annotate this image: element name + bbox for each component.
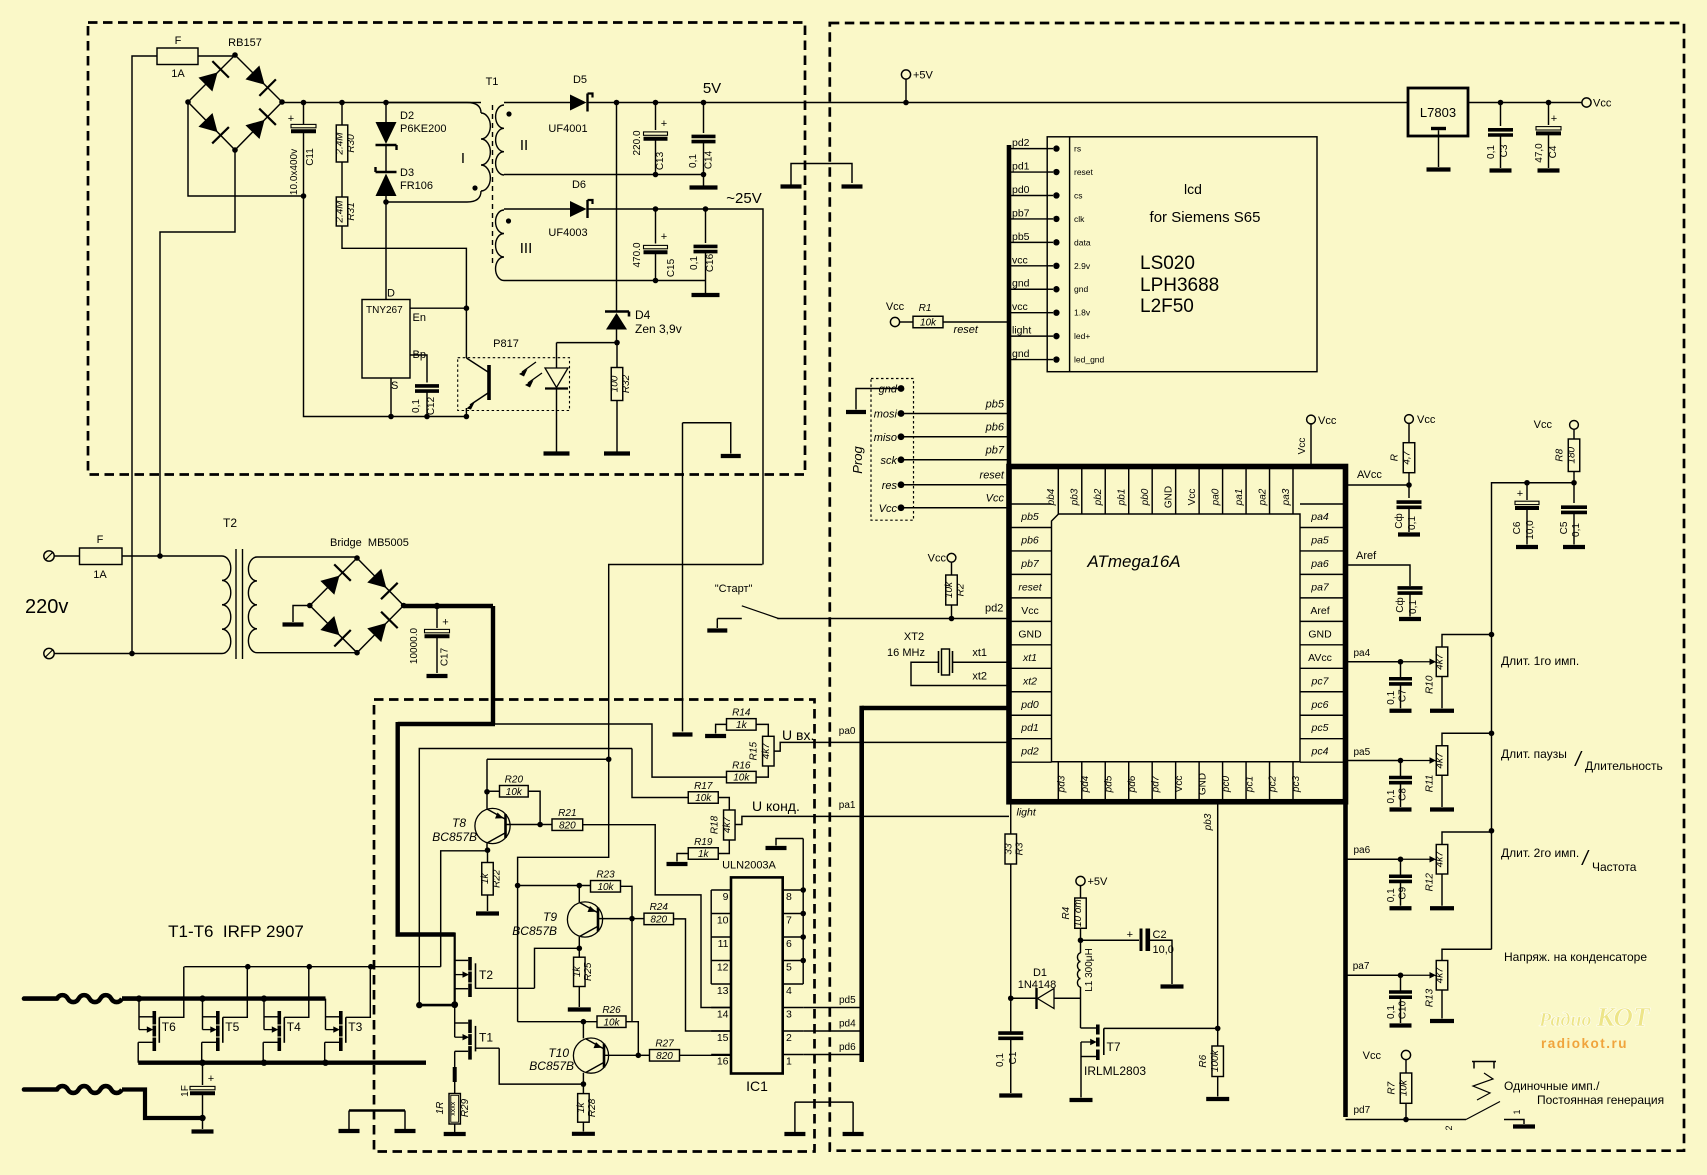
svg-text:10 om: 10 om — [1073, 899, 1084, 927]
svg-text:pd7: pd7 — [1150, 775, 1161, 793]
svg-text:0,1: 0,1 — [1386, 888, 1397, 902]
source bus — [138, 1060, 426, 1064]
svg-text:Напряж. на конденсаторе: Напряж. на конденсаторе — [1504, 950, 1647, 964]
driver dashed box — [374, 700, 815, 1152]
svg-text:Vcc: Vcc — [1021, 605, 1039, 617]
transistor T1 IRFP2907 — [455, 1022, 469, 1024]
svg-text:+: + — [1517, 488, 1523, 500]
svg-text:pa1: pa1 — [839, 800, 856, 811]
svg-text:+5V: +5V — [1088, 876, 1109, 888]
svg-text:R: R — [1389, 454, 1400, 461]
svg-text:0,1: 0,1 — [1571, 523, 1582, 537]
svg-text:10000.0: 10000.0 — [409, 627, 420, 664]
lcd pin cs — [1009, 194, 1047, 196]
svg-text:R28: R28 — [587, 1098, 598, 1117]
svg-text:Vcc: Vcc — [886, 301, 905, 313]
capacitor C12 0,1 — [415, 384, 439, 388]
IC TNY267 — [362, 300, 410, 379]
svg-text:reset: reset — [1074, 167, 1094, 177]
resistor R16 10k — [727, 771, 757, 783]
svg-text:T2: T2 — [479, 968, 493, 982]
svg-text:Aref: Aref — [1356, 550, 1377, 562]
svg-text:+: + — [208, 1073, 214, 1085]
svg-text:C1: C1 — [1008, 1051, 1019, 1064]
svg-text:En: En — [413, 312, 426, 324]
wire T1 source to R29 — [454, 1051, 456, 1067]
svg-text:pc0: pc0 — [1221, 776, 1232, 794]
svg-text:pd3: pd3 — [1057, 775, 1068, 793]
svg-text:pa7: pa7 — [1353, 961, 1370, 972]
svg-text:~25V: ~25V — [726, 190, 761, 207]
+5V terminal top — [901, 70, 910, 79]
svg-text:10.0x400v: 10.0x400v — [289, 149, 300, 195]
svg-text:16: 16 — [717, 1056, 729, 1068]
wire Ukond divider tap — [419, 749, 632, 1006]
svg-text:pa6: pa6 — [1354, 845, 1371, 856]
ground under C16 — [692, 293, 720, 297]
svg-text:820: 820 — [656, 1051, 673, 1062]
svg-text:pd7: pd7 — [1354, 1105, 1371, 1116]
transistor T3 IRFP2907 — [325, 999, 327, 1030]
svg-text:1k: 1k — [698, 849, 710, 860]
wire En — [410, 307, 466, 309]
svg-text:P6KE200: P6KE200 — [400, 123, 446, 135]
svg-text:D: D — [387, 288, 395, 300]
diode D3 FR106 — [376, 171, 397, 173]
wires pd5 pd4 pd6 — [803, 1007, 859, 1009]
svg-text:Vcc: Vcc — [879, 503, 898, 515]
MB5005 diode SE — [367, 623, 386, 642]
fuse F 1A (top) — [157, 48, 198, 65]
node D4/R32/LED — [614, 340, 620, 346]
svg-text:8: 8 — [786, 891, 792, 903]
MB5005 diode NE — [367, 569, 386, 588]
svg-text:0,1: 0,1 — [1408, 600, 1419, 614]
svg-text:2.4M: 2.4M — [335, 132, 346, 156]
svg-text:16 MHz: 16 MHz — [887, 647, 925, 659]
svg-text:R27: R27 — [655, 1039, 674, 1050]
svg-text:+: + — [442, 617, 448, 629]
5V rail — [588, 102, 1409, 104]
svg-text:1k: 1k — [736, 720, 748, 731]
svg-text:pb2: pb2 — [1093, 488, 1104, 506]
svg-text:Длит. 2го имп.: Длит. 2го имп. — [1501, 846, 1579, 860]
svg-text:33: 33 — [1003, 843, 1014, 855]
resistor R20 10k — [487, 790, 500, 792]
svg-text:pc5: pc5 — [1311, 722, 1329, 734]
RB157 diode SW — [198, 113, 217, 132]
resistor R31 2.4M — [341, 162, 343, 197]
svg-text:+: + — [661, 231, 667, 243]
Prog gnd wire — [856, 389, 901, 410]
svg-text:xt1: xt1 — [1022, 652, 1037, 664]
resistor R14 1k — [727, 719, 757, 731]
mode switch — [1466, 1102, 1500, 1120]
svg-text:Длит. 1го имп.: Длит. 1го имп. — [1501, 654, 1579, 668]
svg-text:1k: 1k — [480, 872, 491, 884]
T1 winding II — [496, 105, 504, 175]
resistor R24 820 — [629, 916, 635, 922]
svg-text:C13: C13 — [655, 151, 666, 170]
T2 secondary wires — [257, 556, 357, 558]
svg-text:pd4: pd4 — [1080, 775, 1091, 793]
resistor R6 100k — [1212, 1046, 1224, 1077]
svg-text:R22: R22 — [491, 869, 502, 888]
svg-text:Vcc: Vcc — [1593, 98, 1612, 110]
RB157 diode NW — [198, 72, 217, 91]
svg-text:TNY267: TNY267 — [366, 305, 403, 316]
svg-text:reset: reset — [980, 470, 1005, 482]
transistor T6 IRFP2907 — [138, 999, 140, 1030]
ground pair bottom (box2/3) — [795, 1101, 853, 1103]
svg-text:pc2: pc2 — [1268, 776, 1279, 794]
svg-text:Длит. паузы: Длит. паузы — [1501, 747, 1567, 761]
svg-text:R24: R24 — [650, 902, 669, 913]
resistor R1 10k / reset — [890, 317, 899, 326]
svg-text:xt2: xt2 — [972, 671, 987, 683]
capacitor C1 0,1 — [998, 1031, 1023, 1035]
thick bus to ULN side — [859, 706, 864, 1062]
svg-text:C4: C4 — [1548, 145, 1559, 158]
svg-text:Zen 3,9v: Zen 3,9v — [635, 322, 682, 336]
III bottom rail — [504, 280, 706, 282]
capacitor C11 10.0x400v — [303, 103, 305, 125]
svg-text:100k: 100k — [1210, 1049, 1221, 1072]
svg-text:U вх.: U вх. — [782, 727, 814, 743]
svg-text:ATmega16A: ATmega16A — [1086, 552, 1180, 571]
svg-text:pc6: pc6 — [1311, 699, 1329, 711]
T1 core — [492, 105, 494, 266]
svg-text:ULN2003A: ULN2003A — [722, 860, 776, 872]
fuse F 1A (bottom) — [80, 548, 123, 565]
svg-text:R1: R1 — [919, 303, 932, 314]
svg-text:R4: R4 — [1061, 906, 1072, 919]
svg-text:vcc: vcc — [1012, 254, 1028, 266]
svg-text:pa1: pa1 — [1234, 489, 1245, 507]
capacitor Cf (AVcc) — [1408, 485, 1410, 498]
svg-text:1: 1 — [786, 1056, 792, 1068]
svg-text:BC857B: BC857B — [529, 1059, 574, 1073]
thin bus tap for U vx divider — [495, 724, 727, 777]
svg-text:pb6: pb6 — [985, 422, 1005, 434]
transistor T2 IRFP2907 — [455, 959, 469, 961]
svg-text:clk: clk — [1074, 214, 1085, 224]
drain bus — [138, 996, 326, 1000]
svg-text:pd1: pd1 — [1012, 161, 1030, 173]
svg-text:0,1: 0,1 — [1407, 516, 1418, 530]
capacitor C9 0,1 — [1400, 859, 1402, 875]
potentiometer R11 4k7 — [1346, 760, 1401, 762]
svg-text:Vcc: Vcc — [986, 493, 1005, 505]
resistor R23 10k — [591, 881, 621, 893]
svg-text:4k7: 4k7 — [761, 743, 772, 760]
svg-text:3: 3 — [786, 1009, 792, 1021]
wire T1 gate to T10 — [499, 1048, 582, 1084]
svg-text:12: 12 — [717, 962, 729, 974]
svg-text:820: 820 — [559, 820, 576, 831]
svg-text:470.0: 470.0 — [632, 242, 643, 267]
stage T9 — [515, 883, 521, 889]
resistor R27 820 — [638, 1054, 649, 1056]
svg-text:pb0: pb0 — [1140, 488, 1151, 506]
svg-text:III: III — [520, 240, 533, 257]
svg-text:9: 9 — [723, 891, 729, 903]
svg-text:pa6: pa6 — [1310, 558, 1329, 570]
svg-text:pd2: pd2 — [985, 603, 1003, 615]
svg-text:pa7: pa7 — [1310, 581, 1330, 593]
ground pair top (box2 entry) — [781, 184, 802, 188]
Vcc output — [1468, 102, 1582, 104]
svg-text:Cф: Cф — [1394, 597, 1406, 612]
potentiometer R12 4k7 — [1346, 858, 1401, 860]
power supply dashed box — [88, 23, 805, 475]
RB157 diode NE — [245, 65, 264, 84]
svg-text:Vcc: Vcc — [1534, 419, 1553, 431]
svg-text:pb7: pb7 — [1020, 558, 1040, 570]
P817 phototransistor — [465, 308, 467, 358]
svg-text:4k7: 4k7 — [722, 817, 733, 834]
resistor R7 10k — [1401, 1050, 1410, 1059]
svg-text:R14: R14 — [732, 708, 751, 719]
thick DC bus from bridge — [404, 604, 493, 608]
svg-text:C15: C15 — [666, 258, 677, 277]
wire bridge bottom loop — [160, 150, 235, 556]
diode D2 P6KE200 — [385, 103, 387, 123]
svg-text:IC1: IC1 — [746, 1078, 768, 1094]
svg-text:14: 14 — [717, 1009, 729, 1021]
svg-text:pa5: pa5 — [1310, 534, 1329, 546]
ground under R32 — [604, 451, 630, 455]
resistor R22 1k — [487, 850, 489, 862]
resistor R30 2.4M — [341, 103, 343, 126]
gate bus — [184, 966, 440, 968]
svg-text:pa4: pa4 — [1310, 511, 1329, 523]
thick bus below chip right — [1343, 801, 1348, 1117]
transistor T5 IRFP2907 — [202, 999, 204, 1030]
svg-text:R32: R32 — [621, 374, 632, 393]
resistor R25 1k — [578, 948, 580, 957]
capacitor C17 10000.0 — [436, 606, 438, 628]
svg-text:1A: 1A — [93, 569, 107, 581]
svg-text:D4: D4 — [635, 308, 651, 322]
svg-text:1k: 1k — [572, 966, 583, 978]
svg-text:reset: reset — [954, 324, 979, 336]
svg-text:pb7: pb7 — [1012, 207, 1030, 219]
svg-text:gnd: gnd — [879, 384, 898, 396]
svg-text:D6: D6 — [572, 179, 586, 191]
svg-text:"Старт": "Старт" — [715, 583, 753, 595]
svg-text:Bridge MB5005: Bridge MB5005 — [330, 537, 409, 549]
inductor L1 300uH — [1080, 940, 1082, 953]
svg-text:gnd: gnd — [1074, 284, 1088, 294]
svg-text:pd0: pd0 — [1012, 184, 1030, 196]
P817 LED — [556, 343, 558, 368]
chip body — [1052, 514, 1301, 762]
resistor R17 10k — [632, 749, 688, 798]
pa7 module R13/C10 — [1346, 974, 1401, 976]
svg-text:pa0: pa0 — [839, 726, 856, 737]
capacitor C8 0,1 — [1400, 761, 1402, 777]
capacitor C15 470.0 — [655, 209, 657, 244]
svg-text:R29: R29 — [460, 1098, 471, 1117]
terminal 220v bottom — [44, 648, 54, 658]
resistor R2 10k — [947, 553, 956, 562]
svg-text:FR106: FR106 — [400, 180, 433, 192]
svg-text:data: data — [1074, 237, 1091, 247]
svg-text:5: 5 — [786, 962, 792, 974]
svg-text:Prog: Prog — [850, 446, 865, 474]
svg-text:R11: R11 — [1425, 775, 1436, 793]
svg-text:L1 300μH: L1 300μH — [1084, 948, 1095, 992]
svg-text:pd5: pd5 — [1103, 775, 1114, 793]
svg-text:Vcc: Vcc — [1297, 438, 1308, 455]
lcd pin 2.9v — [1009, 265, 1047, 267]
wire D3 to TNY drain — [385, 196, 387, 300]
resistor R4 10 om — [1080, 886, 1082, 898]
svg-text:1.8v: 1.8v — [1074, 308, 1091, 318]
svg-text:+: + — [661, 118, 667, 130]
svg-text:R7: R7 — [1386, 1081, 1397, 1094]
HV rail y=102.5 — [282, 102, 481, 104]
regulator L7803 — [1408, 88, 1468, 136]
svg-text:10,0: 10,0 — [1525, 520, 1536, 540]
svg-text:C16: C16 — [705, 253, 716, 272]
svg-text:Vcc: Vcc — [928, 553, 947, 565]
primary ground return wire — [304, 196, 467, 417]
svg-text:10k: 10k — [920, 318, 937, 329]
svg-text:AVcc: AVcc — [1357, 469, 1382, 481]
svg-text:L2F50: L2F50 — [1140, 296, 1194, 317]
svg-text:10k: 10k — [733, 773, 750, 784]
wire R31 to En node — [342, 226, 466, 308]
svg-text:11: 11 — [718, 938, 729, 950]
capacitor C10 0,1 — [1400, 975, 1402, 990]
svg-text:D1: D1 — [1033, 967, 1047, 979]
svg-text:II: II — [520, 137, 528, 154]
ground at MB5005 minus — [293, 606, 310, 623]
svg-text:180: 180 — [1567, 446, 1578, 463]
svg-text:sck: sck — [881, 455, 898, 467]
transistor T4 IRFP2907 — [263, 999, 265, 1030]
svg-text:1: 1 — [1512, 1109, 1522, 1114]
svg-text:S: S — [391, 380, 398, 392]
svg-text:Vcc: Vcc — [1318, 415, 1337, 427]
svg-text:GND: GND — [1308, 628, 1332, 640]
svg-text:1k: 1k — [576, 1102, 587, 1114]
svg-text:XT2: XT2 — [904, 631, 924, 643]
svg-text:0,1: 0,1 — [688, 154, 699, 168]
svg-text:gnd: gnd — [1012, 348, 1030, 360]
svg-text:15: 15 — [717, 1032, 729, 1044]
svg-text:R8: R8 — [1554, 448, 1565, 461]
switch alt contact — [1472, 1061, 1496, 1063]
svg-text:pa2: pa2 — [1258, 488, 1269, 506]
svg-text:P817: P817 — [493, 338, 519, 350]
svg-text:2: 2 — [1444, 1125, 1454, 1130]
capacitor C3 0,1 — [1500, 103, 1502, 127]
wire T9 collector to T2 gate — [535, 948, 580, 988]
svg-text:pb1: pb1 — [1117, 489, 1128, 507]
svg-text:R25: R25 — [583, 962, 594, 981]
svg-text:pa3: pa3 — [1281, 488, 1292, 506]
svg-text:pb3: pb3 — [1203, 813, 1214, 831]
capacitor C14 0,1 — [703, 103, 705, 134]
svg-text:10k: 10k — [695, 793, 712, 804]
svg-text:13: 13 — [717, 985, 729, 997]
svg-text:10: 10 — [717, 915, 729, 927]
resistor R 4,7 — [1405, 415, 1414, 424]
svg-text:R19: R19 — [694, 837, 713, 848]
capacitor C5 0,1 — [1573, 483, 1575, 503]
T8 collector to gate bus — [441, 851, 488, 967]
svg-text:4k7: 4k7 — [1435, 967, 1446, 984]
svg-text:2.4M: 2.4M — [335, 200, 346, 224]
svg-text:R23: R23 — [596, 870, 615, 881]
svg-text:T1: T1 — [486, 76, 499, 88]
capacitor C4 47,0 — [1548, 103, 1550, 126]
Prog connector — [871, 379, 914, 521]
svg-text:gnd: gnd — [1012, 278, 1030, 290]
svg-text:47,0: 47,0 — [1534, 143, 1545, 163]
svg-text:vcc: vcc — [1012, 301, 1028, 313]
bottom pin row — [1057, 762, 1059, 799]
lcd pin 1.8v — [1009, 312, 1047, 314]
svg-text:R31: R31 — [346, 202, 357, 220]
svg-text:6: 6 — [786, 938, 792, 950]
svg-text:7: 7 — [786, 915, 792, 927]
svg-text:0,1: 0,1 — [1386, 690, 1397, 704]
svg-text:AVcc: AVcc — [1308, 652, 1332, 664]
capacitor Cf (Aref) — [1398, 586, 1423, 590]
svg-text:pd2: pd2 — [1020, 746, 1039, 758]
wire R21 to IC1 pin14 — [583, 825, 731, 1008]
~25V rail — [588, 209, 764, 565]
svg-text:light: light — [1012, 325, 1031, 337]
MB5005 diode SW — [320, 616, 339, 635]
svg-text:C14: C14 — [704, 150, 715, 169]
output lead 1 (wavy) — [24, 996, 57, 1001]
diode D6 UF4003 — [504, 208, 570, 210]
svg-text:pd2: pd2 — [1012, 137, 1030, 149]
svg-text:R3: R3 — [1015, 842, 1026, 855]
svg-text:Постоянная генерация: Постоянная генерация — [1537, 1093, 1664, 1107]
svg-text:Vcc: Vcc — [1174, 776, 1185, 793]
svg-text:Vcc: Vcc — [1187, 489, 1198, 506]
svg-text:C9: C9 — [1398, 886, 1409, 899]
svg-text:10k: 10k — [944, 581, 955, 598]
svg-text:F: F — [97, 534, 104, 546]
svg-text:Aref: Aref — [1310, 605, 1329, 617]
svg-text:Cф: Cф — [1393, 513, 1405, 528]
svg-text:0,1: 0,1 — [995, 1053, 1006, 1067]
svg-text:pd1: pd1 — [1020, 722, 1039, 734]
svg-text:R17: R17 — [694, 781, 713, 792]
svg-text:for Siemens S65: for Siemens S65 — [1150, 209, 1261, 226]
svg-text:xt2: xt2 — [1022, 675, 1037, 687]
svg-text:R15: R15 — [749, 742, 760, 761]
svg-text:pb7: pb7 — [985, 445, 1005, 457]
svg-text:pd0: pd0 — [1020, 699, 1039, 711]
svg-text:pd6: pd6 — [839, 1042, 856, 1053]
svg-text:0,1: 0,1 — [1486, 145, 1497, 159]
svg-text:R6: R6 — [1198, 1054, 1209, 1067]
svg-text:UF4003: UF4003 — [548, 227, 587, 239]
double ground strap — [349, 1109, 405, 1112]
T2/T1 midpoint node — [451, 1001, 458, 1008]
controller dashed box — [830, 23, 1684, 1151]
resistor R28 1k — [582, 1084, 584, 1094]
svg-text:R20: R20 — [505, 775, 524, 786]
